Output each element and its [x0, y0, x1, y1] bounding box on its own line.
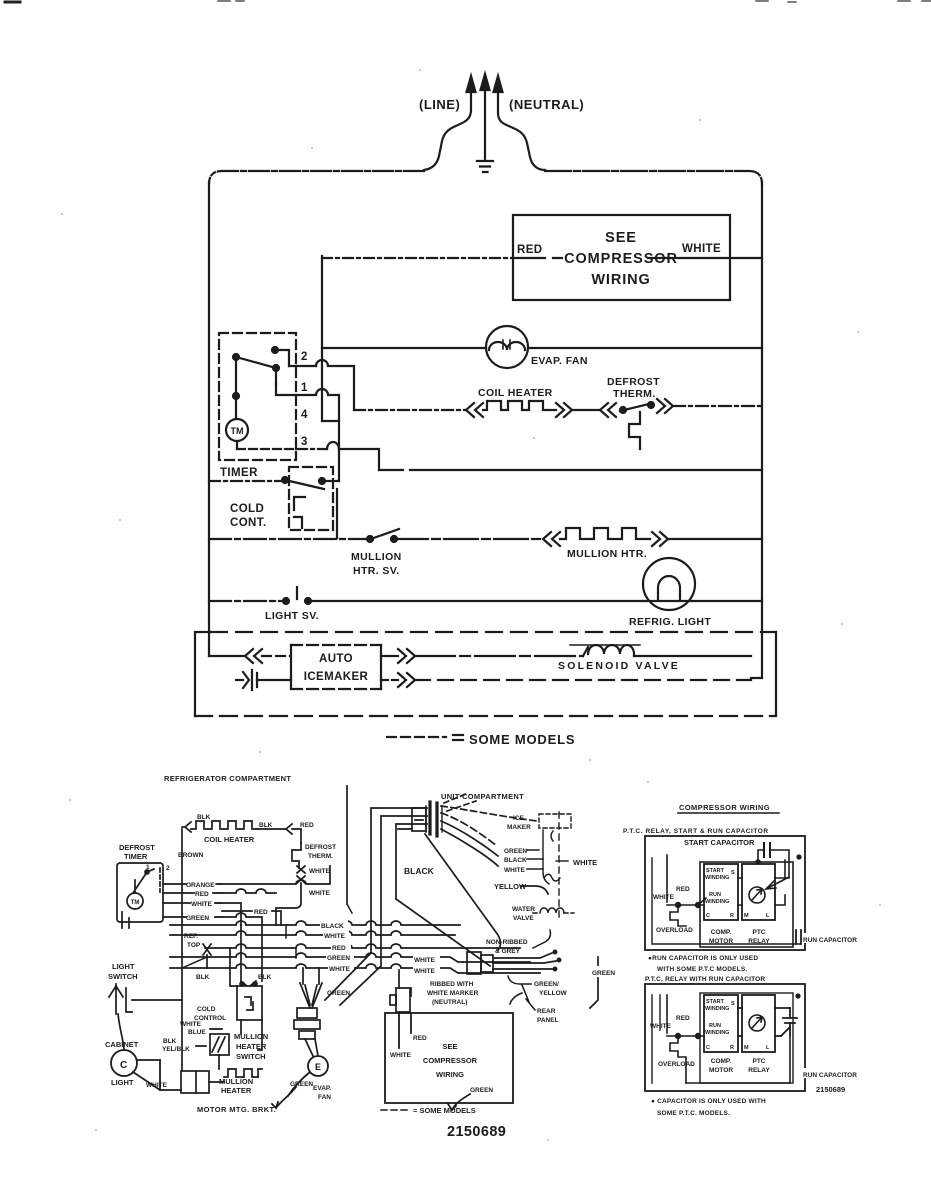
svg-text:LIGHT SV.: LIGHT SV. [265, 610, 319, 622]
svg-text:PANEL: PANEL [537, 1017, 559, 1024]
svg-text:HTR. SV.: HTR. SV. [353, 565, 400, 577]
svg-text:MOTOR: MOTOR [709, 938, 733, 945]
wire verticals left area [240, 925, 242, 981]
svg-text:COLD: COLD [197, 1006, 216, 1013]
timer internal wires [236, 350, 289, 419]
wires interior 2 [738, 1008, 790, 1036]
svg-text:& GREY: & GREY [495, 948, 521, 955]
vertical bundle wires [325, 786, 501, 1005]
switch light switch symbol [109, 984, 182, 1050]
timer contacts [272, 347, 278, 353]
svg-text:WHITE: WHITE [146, 1082, 168, 1089]
wire green right vertical [448, 957, 598, 1110]
wire light row left [209, 600, 284, 602]
some-models outer box top dashed [211, 631, 776, 633]
svg-text:WHITE: WHITE [309, 890, 331, 897]
chevrons left 2 [600, 403, 616, 417]
svg-text:COMPRESSOR: COMPRESSOR [423, 1056, 478, 1065]
bus red [205, 944, 520, 948]
svg-text:HEATER: HEATER [221, 1086, 252, 1095]
svg-text:WHITE: WHITE [324, 933, 346, 940]
svg-text:UNIT COMPARTMENT: UNIT COMPARTMENT [441, 792, 524, 801]
wire defrost staircase [629, 412, 640, 449]
bus green [170, 953, 530, 962]
svg-text:TIMER: TIMER [220, 467, 258, 479]
svg-text:S: S [731, 870, 735, 876]
svg-text:CONT.: CONT. [230, 517, 267, 529]
wire icemaker feed [209, 655, 245, 657]
wire to defrost therm [572, 409, 600, 411]
wire junction row [667, 904, 704, 906]
svg-text:S: S [731, 1001, 735, 1007]
wire right dash-dot [673, 405, 762, 407]
fan connector funnel [294, 968, 322, 1056]
svg-text:WIRING: WIRING [436, 1070, 464, 1079]
svg-text:REFRIG. LIGHT: REFRIG. LIGHT [629, 616, 711, 628]
wire bundle v2 [381, 816, 427, 966]
svg-text:GREEN: GREEN [592, 970, 615, 977]
svg-text:THERM.: THERM. [308, 853, 333, 860]
svg-text:REF.: REF. [184, 933, 198, 940]
some-models outer box right [775, 632, 777, 715]
bus white2 [170, 964, 540, 973]
wires to ice maker [441, 806, 537, 821]
svg-text:R: R [730, 1045, 734, 1051]
svg-text:YELLOW: YELLOW [539, 990, 568, 997]
wire yellow [521, 886, 548, 894]
diagonal long wire [425, 834, 501, 950]
svg-text:RUN: RUN [709, 892, 721, 898]
svg-text:WHITE: WHITE [191, 901, 213, 908]
svg-text:THERM.: THERM. [613, 388, 656, 400]
svg-text:RUN: RUN [709, 1023, 721, 1029]
relay diagram box 2 [645, 984, 805, 1091]
capacitor start cap symbol [756, 843, 789, 889]
svg-text:MAKER: MAKER [507, 824, 531, 831]
svg-text:MOTOR: MOTOR [709, 1067, 733, 1074]
svg-text:M: M [744, 1045, 749, 1051]
svg-text:ORANGE: ORANGE [186, 882, 215, 889]
ground wire [484, 90, 486, 160]
svg-text:MULLION HTR.: MULLION HTR. [567, 548, 647, 560]
switch mullion heater switch [210, 1034, 229, 1069]
svg-text:OVERLOAD: OVERLOAD [656, 927, 693, 934]
svg-text:2150689: 2150689 [816, 1085, 845, 1094]
svg-text:START: START [706, 868, 725, 874]
svg-text:GREEN: GREEN [290, 1081, 313, 1088]
legend some models small [381, 1109, 409, 1111]
svg-text:SWITCH: SWITCH [236, 1052, 266, 1061]
svg-text:P.T.C. RELAY WITH RUN CAPACITO: P.T.C. RELAY WITH RUN CAPACITOR [645, 976, 765, 983]
svg-text:BLK: BLK [258, 974, 272, 981]
wire brown vertical [181, 829, 183, 1071]
wire dashed vertical [558, 812, 560, 922]
wire compressor row right [513, 257, 762, 259]
svg-text:BLK: BLK [196, 974, 210, 981]
svg-text:WHITE: WHITE [504, 867, 526, 874]
mullion heater row [209, 528, 762, 546]
wire coil heater dash-dot [354, 409, 466, 411]
switch light sw [283, 598, 289, 604]
dashes to label [444, 793, 476, 811]
chevrons right 2 [657, 399, 673, 413]
chevrons right [556, 403, 572, 417]
wire extra bottom-left density [182, 884, 352, 968]
wire bundle from defrost timer [163, 866, 330, 935]
svg-text:COMP.: COMP. [711, 1058, 732, 1065]
wire red mid [222, 911, 281, 925]
wire cold to vertical [322, 480, 339, 482]
wire long row to right edge [379, 469, 762, 471]
relay diagram box 1 [645, 836, 805, 950]
icemaker section [195, 632, 776, 716]
X splice marks [297, 866, 305, 873]
wire solenoid right [634, 655, 751, 657]
wire bundle v3 [396, 824, 427, 899]
svg-text:START: START [706, 999, 725, 1005]
svg-text:SOLENOID VALVE: SOLENOID VALVE [558, 660, 680, 672]
svg-text:GREEN/: GREEN/ [534, 981, 559, 988]
svg-text:RELAY: RELAY [748, 938, 770, 945]
svg-text:RIBBED WITH: RIBBED WITH [430, 981, 474, 988]
overload protector [670, 905, 686, 926]
svg-text:MULLION: MULLION [219, 1077, 253, 1086]
svg-text:NON-RIBBED: NON-RIBBED [486, 939, 528, 946]
wires green black white [527, 850, 543, 869]
svg-text:3: 3 [301, 436, 308, 448]
wire mullion mid [394, 538, 543, 540]
svg-text:EVAP. FAN: EVAP. FAN [531, 355, 588, 367]
node dot right [796, 854, 801, 859]
svg-text:WINDING: WINDING [705, 899, 729, 905]
lamp refrig light [643, 558, 695, 610]
svg-text:R: R [730, 913, 734, 919]
connector compressor leads [390, 970, 411, 1012]
wire timer leads [122, 912, 129, 928]
wire terminal 3 with hop [296, 448, 327, 450]
wire bundle v1 [371, 808, 427, 953]
svg-text:2: 2 [166, 865, 170, 872]
svg-text:WHITE MARKER: WHITE MARKER [427, 990, 479, 997]
chevron [185, 822, 191, 832]
svg-text:WHITE: WHITE [650, 1023, 672, 1030]
neutral arrow [498, 92, 545, 170]
svg-text:RED: RED [517, 244, 542, 256]
svg-text:WHITE: WHITE [390, 1052, 412, 1059]
chevrons right [652, 532, 668, 546]
svg-text:WHITE: WHITE [573, 858, 597, 867]
label WHITE right2 [413, 966, 440, 974]
wire rear panel pointer [522, 985, 535, 1010]
timer motor TM [226, 419, 248, 441]
svg-text:(NEUTRAL): (NEUTRAL) [432, 999, 467, 1006]
wire cap to relay arrow [766, 877, 789, 889]
svg-text:SEE: SEE [442, 1042, 457, 1051]
svg-text:GREEN: GREEN [186, 915, 209, 922]
svg-text:PTC: PTC [753, 1058, 766, 1065]
wire light row mid [308, 600, 643, 602]
wire white lead 2 [667, 995, 790, 1083]
svg-text:C: C [706, 913, 710, 919]
bus wires [170, 921, 540, 973]
label WHITE right [413, 955, 440, 963]
timer blade [236, 357, 276, 368]
wire icemaker out1 [381, 655, 398, 657]
connector plug symbol [243, 670, 257, 690]
wire vertical lone [346, 786, 348, 904]
bus labels [320, 918, 354, 970]
svg-text:AUTO: AUTO [319, 653, 353, 665]
resistor mullion heater [560, 528, 650, 539]
svg-text:RUN CAPACITOR: RUN CAPACITOR [803, 937, 857, 944]
scan artifact top edge dashes [218, 1, 931, 2]
chevrons left [466, 403, 483, 417]
svg-text:WITH SOME P.T.C MODELS.: WITH SOME P.T.C MODELS. [657, 966, 747, 973]
svg-text:COIL HEATER: COIL HEATER [478, 387, 553, 399]
svg-text:BLACK: BLACK [504, 857, 527, 864]
wire compressor row left dash [322, 257, 513, 259]
svg-text:YEL/BLK: YEL/BLK [162, 1046, 190, 1053]
svg-text:ICE: ICE [513, 815, 525, 822]
ground symbol [477, 161, 493, 172]
wire dashes [196, 1029, 222, 1046]
svg-text:1: 1 [146, 864, 150, 871]
coil heater top row [182, 821, 301, 1071]
wire terminal 1 with hop [276, 384, 339, 481]
diagonal to fan connector [325, 953, 371, 1000]
svg-text:SEE: SEE [605, 230, 637, 246]
motor evap fan lower [272, 1056, 328, 1108]
svg-text:GREEN: GREEN [470, 1087, 493, 1094]
wire mullion left [209, 538, 367, 540]
svg-text:●RUN CAPACITOR IS ONLY USED: ●RUN CAPACITOR IS ONLY USED [648, 955, 758, 962]
defrost timer contacts [145, 870, 149, 874]
svg-text:COIL HEATER: COIL HEATER [204, 835, 255, 844]
svg-text:1: 1 [301, 382, 308, 394]
heater mullion heater [181, 1069, 262, 1093]
svg-text:PTC: PTC [753, 929, 766, 936]
svg-text:GREEN: GREEN [327, 990, 350, 997]
svg-text:HEATER: HEATER [236, 1042, 267, 1051]
svg-text:RED: RED [254, 909, 268, 916]
power cord connector [467, 950, 561, 974]
chevrons left [245, 649, 262, 663]
svg-text:TOP: TOP [187, 942, 201, 949]
svg-text:WHITE: WHITE [414, 957, 436, 964]
svg-text:CABINET: CABINET [105, 1040, 139, 1049]
solenoid coil [583, 645, 634, 656]
svg-text:COMPRESSOR WIRING: COMPRESSOR WIRING [679, 803, 770, 812]
label RUN CAPACITOR 1 [802, 933, 868, 943]
svg-text:BLUE: BLUE [188, 1029, 206, 1036]
switch defrost thermostat [620, 407, 626, 413]
connector unit compartment plug [398, 793, 537, 866]
defrost therm small [276, 843, 305, 925]
svg-text:RUN CAPACITOR: RUN CAPACITOR [803, 1072, 857, 1079]
svg-text:C: C [706, 1045, 710, 1051]
wire mullion right [668, 538, 762, 540]
svg-text:(LINE): (LINE) [419, 97, 460, 112]
compressor box [513, 215, 730, 300]
svg-text:WINDING: WINDING [705, 1006, 729, 1012]
svg-text:RELAY: RELAY [748, 1067, 770, 1074]
defrost timer box [117, 863, 163, 922]
wire icemaker out2 dashed [381, 679, 398, 681]
arrow [286, 824, 292, 834]
svg-text:RED: RED [676, 886, 690, 893]
timer T1 dashed box [219, 333, 296, 460]
svg-text:LIGHT: LIGHT [111, 1078, 134, 1087]
svg-text:FAN: FAN [318, 1094, 331, 1101]
resistor mullion heater small [224, 1069, 258, 1077]
svg-text:REFRIGERATOR COMPARTMENT: REFRIGERATOR COMPARTMENT [164, 774, 291, 783]
cold control bellows symbol [294, 497, 305, 528]
svg-text:BLK: BLK [163, 1038, 177, 1045]
svg-text:WHITE: WHITE [329, 966, 351, 973]
svg-text:RED: RED [195, 891, 209, 898]
svg-text:BLACK: BLACK [404, 866, 435, 876]
enclosure outline right [545, 171, 762, 184]
ptc relay box [742, 864, 775, 920]
svg-text:COLD: COLD [230, 503, 264, 515]
svg-text:DEFROST: DEFROST [607, 376, 660, 388]
svg-text:WHITE: WHITE [180, 1021, 202, 1028]
line arrow [424, 92, 471, 170]
svg-text:(NEUTRAL): (NEUTRAL) [509, 97, 584, 112]
svg-text:M: M [744, 913, 749, 919]
svg-text:COMPRESSOR: COMPRESSOR [564, 251, 678, 267]
svg-text:WHITE: WHITE [414, 968, 436, 975]
wire terminal 4 stub [322, 420, 339, 422]
some-models outer box left [195, 632, 211, 716]
solenoid water valve coil [533, 908, 574, 913]
cold control CC1 [209, 467, 339, 530]
svg-text:SOME P.T.C. MODELS.: SOME P.T.C. MODELS. [657, 1110, 730, 1117]
svg-text:BLACK: BLACK [321, 923, 344, 930]
wire white vertical [276, 883, 301, 925]
svg-text:P.T.C. RELAY, START & RUN CAPA: P.T.C. RELAY, START & RUN CAPACITOR [623, 828, 769, 835]
svg-text:WIRING: WIRING [591, 272, 650, 288]
chevrons right 1 [398, 649, 415, 663]
svg-text:BLK: BLK [259, 822, 273, 829]
relay disc [749, 887, 765, 903]
scan artifact top-left corner mark [5, 1, 20, 4]
resistor coil heater [483, 401, 556, 410]
wire terminal 2 with hop [289, 360, 354, 410]
svg-text:RED: RED [300, 822, 314, 829]
svg-text:WHITE: WHITE [682, 243, 721, 255]
capacitor run cap 2 [783, 1018, 797, 1023]
svg-text:OVERLOAD: OVERLOAD [658, 1061, 695, 1068]
svg-text:REAR: REAR [537, 1008, 556, 1015]
svg-text:RED: RED [676, 1015, 690, 1022]
bus black [170, 921, 460, 925]
switch ref top [203, 944, 211, 968]
svg-text:4: 4 [301, 409, 308, 421]
bus white [170, 931, 455, 935]
svg-text:RED: RED [332, 945, 346, 952]
svg-text:2: 2 [301, 351, 308, 363]
wire to red corner [258, 828, 285, 830]
wire light row right [643, 600, 762, 602]
wire top row [698, 898, 706, 905]
wire evap fan row [322, 347, 762, 349]
svg-text:BLK: BLK [197, 814, 211, 821]
svg-text:TM: TM [131, 900, 140, 906]
wire cold row left [209, 480, 285, 482]
svg-text:GREEN: GREEN [327, 955, 350, 962]
svg-text:SOME MODELS: SOME MODELS [469, 732, 575, 747]
svg-text:WHITE: WHITE [309, 868, 331, 875]
chevrons left [543, 532, 560, 546]
svg-text:RED: RED [413, 1035, 427, 1042]
svg-text:WATER: WATER [512, 906, 535, 913]
svg-text:TM: TM [231, 426, 244, 436]
node vertical wire [321, 256, 323, 421]
light row [209, 558, 762, 610]
svg-text:SWITCH: SWITCH [108, 972, 138, 981]
wires interior [738, 860, 789, 905]
svg-text:DEFROST: DEFROST [119, 843, 155, 852]
svg-text:EVAP.: EVAP. [313, 1085, 331, 1092]
wire white lead [667, 855, 706, 926]
comp motor box [704, 864, 738, 920]
icemaker box [291, 645, 381, 689]
svg-text:DEFROST: DEFROST [305, 844, 336, 851]
svg-text:GREEN: GREEN [504, 848, 527, 855]
svg-text:MULLION: MULLION [234, 1032, 268, 1041]
svg-text:WINDING: WINDING [705, 875, 729, 881]
svg-text:LIGHT: LIGHT [112, 962, 135, 971]
coil heater row [354, 399, 762, 449]
wire green-yellow pointer [508, 976, 531, 1004]
label GREEN arrow lower [448, 1094, 470, 1110]
enclosure outline left [209, 171, 424, 184]
svg-text:COMP.: COMP. [711, 929, 732, 936]
overload protector 2 [670, 1036, 686, 1083]
some-models outer box bottom dashed [195, 715, 776, 717]
svg-text:MULLION: MULLION [351, 551, 402, 563]
defrost timer motor [127, 893, 143, 909]
squiggle [544, 874, 560, 881]
svg-text:2150689: 2150689 [447, 1124, 506, 1140]
legend some models [387, 735, 463, 740]
label RUN CAPACITOR 2 [802, 1068, 868, 1078]
svg-text:MOTOR MTG. BRKT.: MOTOR MTG. BRKT. [197, 1105, 276, 1114]
compressor detail box [385, 1013, 513, 1103]
resistor coil heater small [191, 821, 258, 829]
capacitor run cap 1 [796, 930, 801, 944]
comp motor box 2 [700, 993, 797, 1083]
compressor housing [700, 860, 793, 947]
svg-text:WINDING: WINDING [705, 1030, 729, 1036]
svg-text:TIMER: TIMER [124, 852, 148, 861]
svg-text:E: E [315, 1062, 321, 1072]
svg-text:ICEMAKER: ICEMAKER [304, 671, 369, 683]
svg-text:● CAPACITOR IS ONLY USED WITH: ● CAPACITOR IS ONLY USED WITH [651, 1098, 766, 1105]
svg-text:VALVE: VALVE [513, 915, 534, 922]
chevrons right 2 [398, 673, 415, 687]
lamp cabinet light [111, 1050, 181, 1090]
diagonal black wire [396, 899, 490, 966]
node dot right 2 [795, 993, 800, 998]
motor M1 evap fan circle [486, 326, 528, 368]
wire pointer [533, 930, 550, 948]
bottom return wire [686, 1035, 790, 1083]
icemaker dashed box [527, 812, 571, 922]
scan speckle noise [61, 69, 881, 1141]
svg-text:= SOME MODELS: = SOME MODELS [413, 1106, 476, 1115]
